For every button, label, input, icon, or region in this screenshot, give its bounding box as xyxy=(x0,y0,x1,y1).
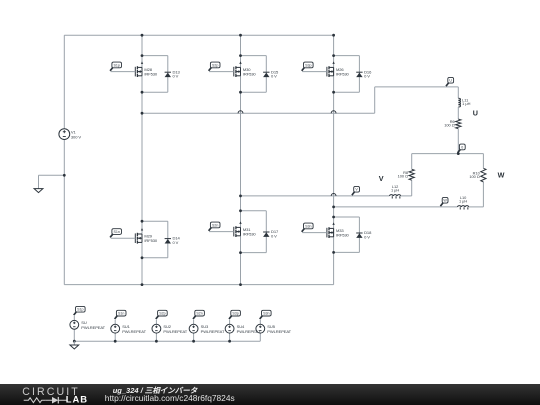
resistor R8 (100) V phase xyxy=(409,169,414,180)
wire gate 2 low xyxy=(209,231,234,233)
transistor M26 (NMOS high side) xyxy=(327,61,335,77)
wire V phase horizontal xyxy=(241,195,390,197)
wire V- bottom rail xyxy=(64,284,333,286)
junction high cell 2 top xyxy=(239,54,242,57)
wire W phase horizontal xyxy=(334,206,458,208)
svg-text:IRF530: IRF530 xyxy=(243,232,257,237)
junction low cell 3 top xyxy=(332,216,335,219)
svg-text:300 V: 300 V xyxy=(71,134,81,139)
svg-text:U: U xyxy=(473,109,478,118)
junction U tap on leg 1 xyxy=(141,112,144,115)
wire high cell 3 bottom xyxy=(334,91,360,93)
svg-text:IRF530: IRF530 xyxy=(336,233,350,238)
wire to ground 2 xyxy=(73,341,75,345)
voltage source SU1 (PWLREPEAT) xyxy=(111,324,120,333)
svg-text:IRF530: IRF530 xyxy=(336,72,350,77)
voltage source SU5 (PWLREPEAT) xyxy=(256,324,265,333)
wire high cell 1 diode branch xyxy=(167,56,169,93)
wire low cell 1 bottom xyxy=(142,257,168,259)
wire low cell 2 bottom xyxy=(241,252,267,254)
wire SU1 top lead xyxy=(114,320,116,325)
wire left bus upper (V1 drain) xyxy=(63,35,65,129)
wire gate 3 high xyxy=(302,71,327,73)
wire U phase jog vertical xyxy=(374,87,376,113)
diode D14 (body diode, cathode up) xyxy=(165,239,171,244)
svg-text:100 Ω: 100 Ω xyxy=(444,123,455,128)
voltage source SU3 (PWLREPEAT) xyxy=(189,324,198,333)
svg-text:1 μH: 1 μH xyxy=(462,101,470,106)
wire high cell 3 top xyxy=(334,55,360,57)
junction high cell 3 top xyxy=(332,54,335,57)
net flag S1p xyxy=(74,306,85,315)
svg-text:1 μH: 1 μH xyxy=(391,188,399,193)
wire low cell 3 diode branch xyxy=(358,217,360,252)
wire gate source common rail xyxy=(74,340,260,342)
wire low cell 3 bottom xyxy=(334,251,360,253)
net flag S1n xyxy=(110,229,121,238)
net flag S3p xyxy=(229,310,240,319)
wire SU2 top lead xyxy=(155,320,157,325)
wire high cell 2 diode branch xyxy=(265,56,267,93)
junction leg 2 top rail xyxy=(239,34,242,37)
svg-text:S1n: S1n xyxy=(113,230,119,234)
wire gate 1 low xyxy=(111,237,136,239)
net flag S2p xyxy=(156,310,167,319)
diode D15 (body diode, cathode up) xyxy=(263,72,269,77)
svg-text:IRF530: IRF530 xyxy=(144,238,158,243)
svg-text:S3n: S3n xyxy=(305,224,311,228)
wire ground stub xyxy=(38,175,40,188)
wire SU3 top lead xyxy=(193,320,195,325)
wire SU4 bottom lead xyxy=(229,333,231,341)
wire SU3 bottom lead xyxy=(193,333,195,341)
junction low cell 3 bottom xyxy=(332,251,335,254)
junction low cell 2 bottom xyxy=(239,251,242,254)
crossover U wire over leg 3 xyxy=(331,111,336,113)
svg-text:0: 0 xyxy=(461,145,463,149)
voltage source SU2 (PWLREPEAT) xyxy=(152,324,161,333)
wire high cell 2 bottom xyxy=(241,91,267,93)
net flag S3p xyxy=(302,62,313,71)
junction low cell 1 top xyxy=(141,220,144,223)
svg-text:W: W xyxy=(443,199,447,203)
transistor M28 (NMOS high side) xyxy=(135,61,143,77)
wire V+ top rail xyxy=(64,34,333,36)
wire gate 3 low xyxy=(302,232,327,234)
transistor M30 (NMOS high side) xyxy=(234,61,242,77)
wire L12 to corner xyxy=(401,195,412,197)
wire SU5 bottom lead xyxy=(259,333,261,341)
net flag S3n xyxy=(260,310,271,319)
svg-text:PWLREPEAT: PWLREPEAT xyxy=(267,329,291,334)
svg-text:S3p: S3p xyxy=(232,312,238,316)
wire R8 to neutral xyxy=(411,154,413,170)
net flag S1p xyxy=(110,62,121,71)
wire U phase upper horizontal xyxy=(375,86,459,88)
inductor L12 (1 uH) V phase xyxy=(389,195,400,199)
junction leg 3 top rail xyxy=(332,34,335,37)
transistor M33 (NMOS low side) xyxy=(327,222,335,238)
wire left bus lower xyxy=(63,140,65,285)
junction high cell 3 bottom xyxy=(332,91,335,94)
wire to ground xyxy=(39,174,65,176)
svg-text:0 V: 0 V xyxy=(364,234,370,239)
svg-text:PWLREPEAT: PWLREPEAT xyxy=(122,329,146,334)
transistor M29 (NMOS low side) xyxy=(135,228,143,244)
wire high cell 1 top xyxy=(142,55,168,57)
junction SU2 on rail xyxy=(155,340,158,343)
svg-text:LAB: LAB xyxy=(66,394,88,405)
inductor L11 (1 uH) U phase xyxy=(458,98,460,107)
wire SU4 top lead xyxy=(229,320,231,325)
junction V tap on leg 2 xyxy=(239,195,242,198)
wire to L11 xyxy=(457,87,459,98)
junction leg 1 top rail xyxy=(141,34,144,37)
ground GND1 xyxy=(34,189,43,193)
inductor L10 (1 uH) W phase xyxy=(457,206,468,210)
diode D18 (body diode, cathode up) xyxy=(356,233,362,238)
diode D13 (body diode, cathode up) xyxy=(165,72,171,77)
svg-text:IRF530: IRF530 xyxy=(144,72,158,77)
resistor R6 (100) U phase xyxy=(456,119,461,129)
net flag U xyxy=(446,77,454,86)
svg-text:PWLREPEAT: PWLREPEAT xyxy=(81,325,105,330)
wire SU2 bottom lead xyxy=(155,333,157,341)
CircuitLab logo xyxy=(0,384,100,405)
junction high cell 1 top xyxy=(141,54,144,57)
svg-text:S2p: S2p xyxy=(159,312,165,316)
junction ground tap xyxy=(63,174,66,177)
junction SU4 on rail xyxy=(228,340,231,343)
svg-text:0 V: 0 V xyxy=(364,74,370,79)
wire L11 to R6 xyxy=(457,107,459,119)
net flag W xyxy=(440,197,448,206)
svg-text:S1p: S1p xyxy=(113,63,119,67)
svg-text:100 Ω: 100 Ω xyxy=(469,174,480,179)
wire neutral rail xyxy=(412,153,484,155)
net flag S2p xyxy=(209,62,220,71)
svg-text:PWLREPEAT: PWLREPEAT xyxy=(201,329,225,334)
wire corner to R10 xyxy=(482,182,484,207)
footer bar xyxy=(0,384,540,405)
resistor R10 (100) W phase xyxy=(481,168,486,182)
wire low cell 1 diode branch xyxy=(167,221,169,258)
svg-text:V: V xyxy=(379,174,384,183)
wire inverter leg 1 vertical xyxy=(141,35,143,284)
svg-text:0 V: 0 V xyxy=(271,74,277,79)
wire SU1 bottom lead xyxy=(114,333,116,341)
junction high cell 1 bottom xyxy=(141,91,144,94)
wire U phase horizontal xyxy=(142,112,375,114)
junction high cell 2 bottom xyxy=(239,91,242,94)
svg-text:S3p: S3p xyxy=(305,63,311,67)
svg-text:100 Ω: 100 Ω xyxy=(398,173,409,178)
svg-text:S2n: S2n xyxy=(212,223,218,227)
junction SU1 on rail xyxy=(114,340,117,343)
wire corner to R8 xyxy=(411,180,413,196)
wire high cell 2 top xyxy=(241,55,267,57)
svg-text:S3n: S3n xyxy=(263,312,269,316)
voltage source SU (PWLREPEAT) xyxy=(70,320,79,329)
wire SU bottom lead xyxy=(73,329,75,341)
svg-text:1 μH: 1 μH xyxy=(459,199,467,204)
wire gate 1 high xyxy=(111,71,136,73)
junction SU / ground rail xyxy=(73,340,76,343)
title text xyxy=(113,386,198,397)
net flag S2n xyxy=(209,222,220,231)
svg-text:S2n: S2n xyxy=(196,312,202,316)
url text xyxy=(105,394,235,404)
svg-text:IRF530: IRF530 xyxy=(243,72,257,77)
svg-text:0 V: 0 V xyxy=(173,74,179,79)
svg-text:0 V: 0 V xyxy=(271,233,277,238)
junction W tap on leg 3 xyxy=(332,206,335,209)
junction leg 2 bottom rail xyxy=(239,283,242,286)
wire R10 to neutral xyxy=(482,154,484,169)
net flag 0 (neutral) xyxy=(458,144,466,153)
wire inverter leg 3 vertical xyxy=(333,35,335,284)
crossover V wire over leg 3 xyxy=(331,193,336,195)
ground GND2 xyxy=(70,345,79,349)
svg-text:S1p: S1p xyxy=(77,308,83,312)
junction neutral xyxy=(457,152,460,155)
svg-text:W: W xyxy=(498,170,505,179)
wire low cell 1 top xyxy=(142,220,168,222)
svg-text:0 V: 0 V xyxy=(173,240,179,245)
wire R6 to neutral xyxy=(457,129,459,154)
wire low cell 2 diode branch xyxy=(265,211,267,253)
svg-text:PWLREPEAT: PWLREPEAT xyxy=(163,329,187,334)
net flag S3n xyxy=(302,223,313,232)
wire SU top lead xyxy=(73,316,75,321)
wire high cell 1 bottom xyxy=(142,91,168,93)
wire high cell 3 diode branch xyxy=(358,56,360,93)
wire inverter leg 2 vertical xyxy=(240,35,242,284)
diode D17 (body diode, cathode up) xyxy=(263,232,269,237)
voltage source V1 (300 V) xyxy=(59,129,70,140)
wire L10 to corner xyxy=(469,206,484,208)
voltage source SU4 (PWLREPEAT) xyxy=(225,324,234,333)
net flag S2n xyxy=(193,310,204,319)
junction low cell 1 bottom xyxy=(141,256,144,259)
wire SU5 top lead xyxy=(259,320,261,325)
wire low cell 2 top xyxy=(241,210,267,212)
diode D16 (body diode, cathode up) xyxy=(356,72,362,77)
wire gate 2 high xyxy=(209,71,234,73)
crossover U wire over leg 2 xyxy=(238,111,243,113)
svg-text:U: U xyxy=(449,79,452,83)
wire low cell 3 top xyxy=(334,216,360,218)
svg-text:S1n: S1n xyxy=(118,312,124,316)
net flag S1n xyxy=(115,310,126,319)
svg-text:S2p: S2p xyxy=(212,63,218,67)
net flag V xyxy=(352,186,360,195)
junction SU3 on rail xyxy=(192,340,195,343)
junction leg 1 bottom rail xyxy=(141,283,144,286)
transistor M31 (NMOS low side) xyxy=(234,221,242,237)
junction low cell 2 top xyxy=(239,209,242,212)
